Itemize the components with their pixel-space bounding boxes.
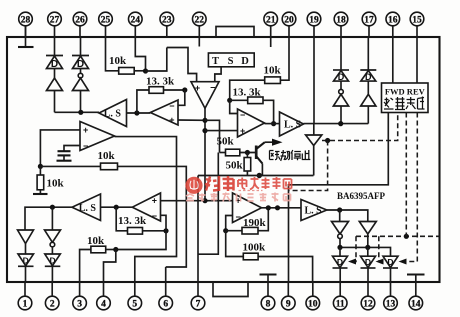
ground pin28 xyxy=(18,46,34,48)
node L (190k/100k junction) xyxy=(223,228,228,233)
pin 16 xyxy=(386,12,400,37)
wire T1 branch xyxy=(339,210,341,222)
op-amp U3 (center, points right) xyxy=(238,109,265,137)
svg-text:D: D xyxy=(387,257,393,267)
pin 26 xyxy=(73,12,87,37)
diode DD12 (pin 12) xyxy=(361,256,376,282)
resistor 100k xyxy=(226,231,313,282)
svg-text:18: 18 xyxy=(336,15,346,25)
arrow into D13 xyxy=(399,259,407,265)
node B xyxy=(182,87,187,92)
node at stack join xyxy=(78,110,83,115)
svg-text:4: 4 xyxy=(101,299,106,309)
svg-text:10: 10 xyxy=(308,299,318,309)
svg-text:2: 2 xyxy=(50,299,55,309)
node K xyxy=(113,247,118,252)
pin 14 xyxy=(409,282,423,310)
svg-text:S: S xyxy=(228,56,234,67)
wire node J down to 10k-D node xyxy=(116,231,166,250)
amp A17 xyxy=(361,81,376,124)
svg-text:1: 1 xyxy=(23,299,28,309)
svg-text:10k: 10k xyxy=(47,178,65,190)
wire opamp1 plus to node C xyxy=(178,119,205,121)
pin 15 xyxy=(410,12,424,37)
wire pin22 stub xyxy=(198,37,200,47)
dashed enable D12 xyxy=(379,236,380,261)
svg-text:13: 13 xyxy=(386,299,396,309)
svg-text:BA6395AFP: BA6395AFP xyxy=(337,191,385,201)
pin 23 xyxy=(160,12,174,37)
svg-text:−: − xyxy=(236,212,241,222)
pin 8 xyxy=(261,282,275,310)
resistor 10k R-D xyxy=(80,246,116,282)
svg-text:L. S: L. S xyxy=(104,109,122,120)
pin 13 xyxy=(384,282,398,310)
pin 11 xyxy=(333,282,347,310)
svg-text:26: 26 xyxy=(75,15,85,25)
wire pin28 stem xyxy=(25,25,27,46)
svg-text:10k: 10k xyxy=(87,235,105,247)
wire node D to opamp3c plus xyxy=(205,130,238,132)
amp A1 (pin1 stack, points down) xyxy=(18,230,34,254)
pin 20 xyxy=(282,12,296,37)
resistor 50k R2 (vertical) xyxy=(244,153,251,176)
node A (LS1 input) xyxy=(134,110,139,115)
node T2 out xyxy=(365,245,370,250)
wire plus feedback xyxy=(40,130,80,167)
node stack A xyxy=(338,121,343,126)
wire opamp4 out to pin5 xyxy=(115,137,177,282)
diode D17 (pin 17 stack) xyxy=(360,37,376,82)
pin 19 xyxy=(307,12,321,37)
node N xyxy=(275,205,280,210)
pin 12 xyxy=(361,282,375,310)
svg-text:D: D xyxy=(241,56,249,67)
pin 24 xyxy=(129,12,143,37)
svg-text:6: 6 xyxy=(163,299,168,309)
dashed from enable node down xyxy=(289,141,328,191)
wire opamp3 out to LS2 xyxy=(265,123,280,125)
node pin24/10k xyxy=(143,68,148,73)
dashed enable D13 (from FWD/REV right) xyxy=(407,113,417,262)
op-amp U1 (points left) xyxy=(150,100,178,125)
pin 6 xyxy=(159,282,173,310)
resistor 10k R-B xyxy=(40,163,186,267)
svg-text:12: 12 xyxy=(363,299,373,309)
svg-text:3: 3 xyxy=(77,299,82,309)
wire opamp6 minus jog xyxy=(226,216,233,231)
diode DD11 (pin 11) xyxy=(333,256,348,282)
wire pin2 branch down xyxy=(51,207,53,230)
ground (below 10k) xyxy=(33,193,48,195)
diode D18 (pin 18 stack) xyxy=(333,37,349,82)
resistor 13.3k (top-left) xyxy=(137,87,185,113)
buffer B1 (points down) xyxy=(306,124,322,176)
amp A26 with bubble xyxy=(73,69,89,113)
svg-text:D: D xyxy=(50,256,56,266)
label qudong tingzhi (drive stop) xyxy=(270,150,311,161)
node dashed rail xyxy=(404,234,409,239)
amp A18 with bubble xyxy=(333,81,348,124)
resistor 190k xyxy=(226,208,269,234)
collector arrow xyxy=(265,139,283,146)
svg-text:9: 9 xyxy=(286,299,291,309)
pin 27 xyxy=(48,12,62,37)
wire node C to 50k branch xyxy=(205,120,220,152)
node M xyxy=(266,205,271,210)
wire D12 stem xyxy=(367,247,369,256)
svg-text:L. S: L. S xyxy=(305,206,323,217)
node pin2 branch xyxy=(50,205,55,210)
node E (minus junction) xyxy=(227,98,232,103)
op-amp U5 (points left) xyxy=(132,193,160,221)
node LS4 out xyxy=(337,207,342,212)
svg-text:10k: 10k xyxy=(98,150,116,162)
pin 7 xyxy=(191,282,205,310)
svg-text:D: D xyxy=(365,257,371,267)
op-amp U6 (bottom, points right) xyxy=(233,193,262,223)
wire node E to opamp3c minus xyxy=(230,100,238,113)
wire node B to opamp1 minus xyxy=(178,90,185,105)
svg-text:−: − xyxy=(240,110,245,120)
pin 25 xyxy=(99,12,113,37)
wire pin7 vertical xyxy=(197,176,199,283)
diode DD2 (pin2) xyxy=(45,254,61,282)
pin 10 xyxy=(306,282,320,310)
op-amp U2 (points down) xyxy=(191,82,219,109)
svg-text:10k: 10k xyxy=(109,55,127,67)
svg-text:L. S: L. S xyxy=(284,120,302,131)
level shifter LS1 xyxy=(99,100,127,127)
pin 2 xyxy=(45,282,59,310)
svg-text:50k: 50k xyxy=(217,136,235,148)
svg-text:D: D xyxy=(23,256,29,266)
TSD block xyxy=(208,53,254,67)
pin 9 xyxy=(282,282,296,310)
wire pin15 stem xyxy=(416,37,418,83)
wire node K to pin4 xyxy=(104,250,116,283)
node D xyxy=(202,128,207,133)
dashed enable to buffer xyxy=(322,113,398,141)
pin 21 xyxy=(264,12,278,37)
node G xyxy=(38,164,43,169)
wire LS4 output xyxy=(327,210,368,222)
resistor 10k R-E (vertical) xyxy=(37,166,44,193)
pin 1 xyxy=(18,282,32,310)
amp T2 (points down) xyxy=(359,222,376,248)
wire pin6 stem xyxy=(165,267,167,282)
bottom notch tab xyxy=(213,282,248,297)
node F (opamp3 out) xyxy=(271,121,276,126)
svg-text:−: − xyxy=(169,101,174,111)
svg-text:23: 23 xyxy=(162,15,172,25)
wire TSD to opamp2 minus xyxy=(215,67,221,82)
svg-text:100k: 100k xyxy=(243,242,267,254)
wire pin9 vertical xyxy=(288,208,290,282)
node H (base) xyxy=(245,150,250,155)
svg-text:D: D xyxy=(51,59,58,70)
wire D11 stem xyxy=(339,247,341,256)
svg-text:10k: 10k xyxy=(264,65,282,77)
svg-text:27: 27 xyxy=(50,15,60,25)
resistor 50k R1 xyxy=(220,149,257,156)
amp T1 (points down) with bubble xyxy=(332,222,349,248)
svg-text:+: + xyxy=(83,125,88,135)
node T1 out xyxy=(337,245,342,250)
node I xyxy=(114,205,119,210)
svg-text:8: 8 xyxy=(266,299,271,309)
resistor 13.3k R-BL xyxy=(116,207,166,234)
wire LS3 in xyxy=(101,206,133,208)
svg-text:+: + xyxy=(152,196,157,206)
wire opamp2 output down xyxy=(204,108,206,201)
svg-text:13. 3k: 13. 3k xyxy=(146,76,175,88)
svg-text:50k: 50k xyxy=(226,160,244,172)
level shifter LS4 xyxy=(301,200,327,221)
wire pin19 stem xyxy=(313,37,315,124)
svg-text:−: − xyxy=(83,141,88,151)
svg-text:−: − xyxy=(152,211,157,221)
svg-text:D: D xyxy=(77,59,84,70)
FWD REV logic block xyxy=(382,83,429,113)
dashed control rail xyxy=(356,235,440,237)
arrow into D12 xyxy=(376,259,384,265)
ground pin14 xyxy=(407,275,425,283)
diode D27 (pin 27 stack) xyxy=(46,37,63,70)
diode D26 (pin 26 stack) xyxy=(72,37,89,70)
top notch tab xyxy=(216,27,254,38)
svg-text:17: 17 xyxy=(364,15,374,25)
wire driver rail xyxy=(340,247,391,256)
svg-text:16: 16 xyxy=(388,15,398,25)
svg-text:D: D xyxy=(338,72,345,82)
svg-text:−: − xyxy=(210,83,215,93)
diode DD1 (pin1) xyxy=(18,254,34,282)
wire pin23 staircase to opamp2 plus xyxy=(167,48,197,82)
svg-text:20: 20 xyxy=(284,15,294,25)
svg-text:21: 21 xyxy=(266,15,276,25)
svg-text:24: 24 xyxy=(131,15,141,25)
svg-text:15: 15 xyxy=(412,15,422,25)
svg-text:D: D xyxy=(365,72,372,82)
svg-text:19: 19 xyxy=(309,15,319,25)
svg-text:14: 14 xyxy=(411,299,421,309)
svg-text:7: 7 xyxy=(196,299,201,309)
svg-text:+: + xyxy=(240,126,245,136)
node J xyxy=(163,228,168,233)
wire pin21 stub xyxy=(270,37,272,47)
op-amp U4 (mid-left, points right) xyxy=(80,122,115,152)
svg-text:25: 25 xyxy=(101,15,111,25)
amp A2 with bubble (pin2 stack) xyxy=(45,230,61,254)
diode DD13 (pin 13) xyxy=(383,256,398,282)
wire node to pin23 line xyxy=(146,48,167,72)
IC outline border xyxy=(7,37,440,282)
arrow into D11 xyxy=(348,259,356,265)
svg-text:13. 3k: 13. 3k xyxy=(118,215,147,227)
pin 4 xyxy=(97,282,111,310)
transistor Q1 xyxy=(256,142,265,175)
resistor 10k R-C (pin20) xyxy=(230,37,289,100)
node dot3 xyxy=(202,198,207,203)
svg-text:+: + xyxy=(169,115,174,125)
wire pin16 stem xyxy=(392,37,394,83)
wire opamp6 out to LS4 xyxy=(262,207,302,209)
pin 3 xyxy=(73,282,87,310)
pin 18 xyxy=(334,12,348,37)
node buffer enable xyxy=(325,138,330,143)
svg-text:D: D xyxy=(337,257,343,267)
wire LS1 to opamp1 xyxy=(127,112,151,114)
emitter node dot xyxy=(257,173,262,178)
ground pin8 xyxy=(260,275,277,283)
dashed from FWD/REV mid xyxy=(405,113,407,237)
svg-text:L. S: L. S xyxy=(79,203,97,214)
svg-text:T: T xyxy=(212,56,219,67)
svg-text:FWD REV: FWD REV xyxy=(385,87,426,97)
wire FWD/REV to LS4 input xyxy=(289,113,389,208)
wire LS2 output xyxy=(304,123,369,125)
resistor 10k R-A (pin25) xyxy=(106,37,146,74)
node C xyxy=(202,118,207,123)
svg-text:22: 22 xyxy=(195,15,205,25)
dashed enable D11 xyxy=(352,236,356,261)
wire LS3 out to pin1/2 stacks xyxy=(25,207,72,230)
svg-text:11: 11 xyxy=(336,299,345,309)
svg-text:28: 28 xyxy=(21,15,31,25)
level shifter LS3 (points left) xyxy=(72,194,101,221)
pin 22 xyxy=(193,12,207,37)
capacitor C1 xyxy=(57,146,81,161)
pin 28 xyxy=(19,12,33,37)
level shifter LS2 xyxy=(280,112,304,136)
pin 17 xyxy=(362,12,376,37)
svg-text:+: + xyxy=(195,83,200,93)
wire node J to opamp5 minus xyxy=(161,215,167,231)
wire pin24 staircase xyxy=(135,37,145,71)
wire pin7 branch to 50k line xyxy=(198,153,218,255)
resistor 13.3k R-C2 xyxy=(230,97,274,124)
amp A27 xyxy=(47,69,63,113)
wire stacks to L.S1 xyxy=(55,111,100,113)
wire emitter/stop line xyxy=(198,175,314,177)
pin 5 xyxy=(128,282,142,310)
svg-text:5: 5 xyxy=(132,299,137,309)
wire opamp5 plus line xyxy=(161,200,233,202)
